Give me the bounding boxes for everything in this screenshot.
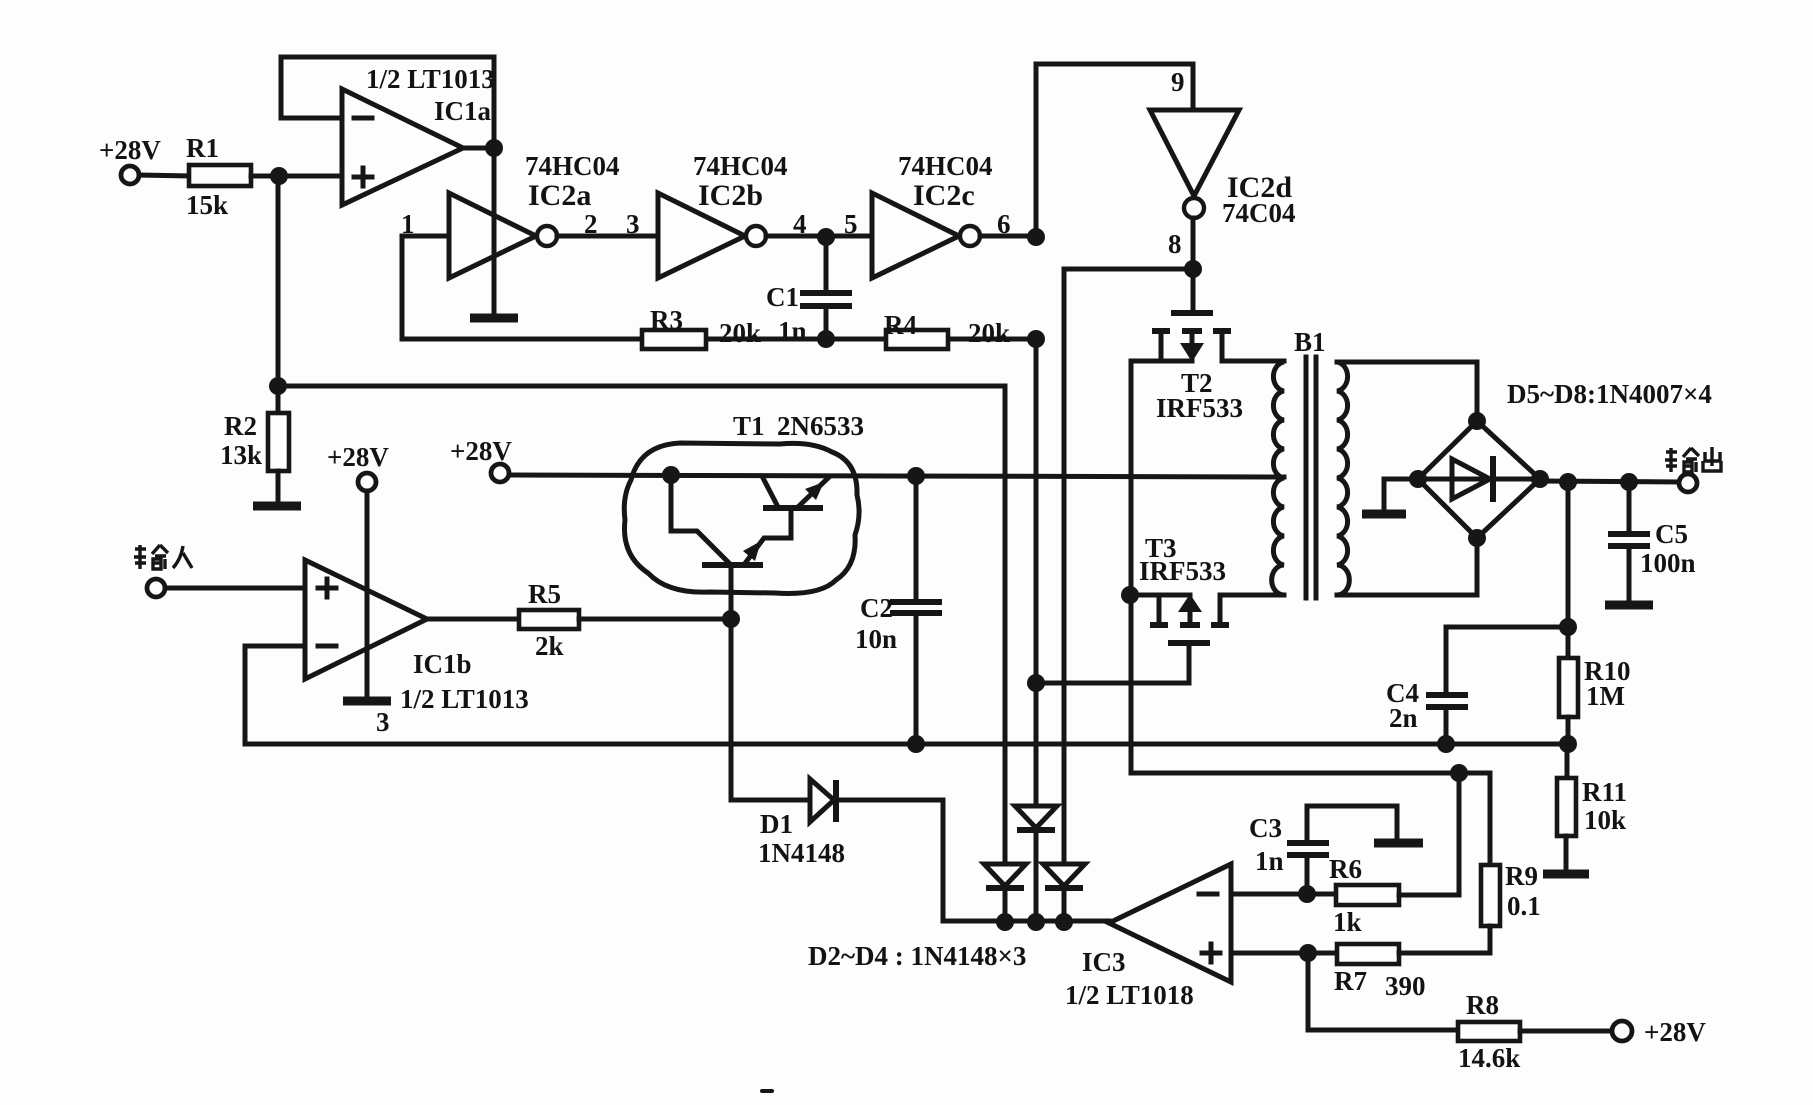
node T3 gate junction	[1027, 674, 1045, 692]
resistor R7	[1334, 944, 1426, 1001]
resistor R6	[1329, 854, 1399, 937]
node C2 top junction	[907, 467, 925, 485]
svg-text:R7: R7	[1334, 966, 1367, 996]
wire R2 to ground	[276, 471, 281, 503]
svg-text:2N6533: 2N6533	[777, 411, 864, 441]
node D4 anode junction	[1055, 913, 1073, 931]
node IC2d output junction	[1184, 260, 1202, 278]
wire T1 internal base network	[671, 475, 728, 562]
transistor T1 lower base bar	[702, 562, 763, 568]
wire secondary bottom to bridge	[1337, 538, 1477, 595]
diode bridge D5-D8	[1418, 379, 1712, 538]
diode D1	[758, 779, 845, 868]
node R2 top junction	[269, 377, 287, 395]
node R1 junction	[270, 167, 288, 185]
node C1 top junction	[817, 228, 835, 246]
capacitor C1	[766, 237, 852, 346]
node IC1a output	[485, 139, 503, 157]
ground bridge left	[1362, 510, 1406, 519]
svg-text:9: 9	[1171, 67, 1185, 97]
comparator U IC3	[1065, 864, 1231, 1010]
transistor T1 upper base bar	[763, 505, 823, 511]
svg-text:R6: R6	[1329, 854, 1362, 884]
resistor R10	[1559, 656, 1631, 717]
svg-text:74HC04: 74HC04	[525, 151, 620, 181]
wire D1 to diode anode line	[838, 800, 1109, 921]
wire rail to R11	[1565, 744, 1570, 778]
node output R10 junction	[1559, 473, 1577, 491]
svg-text:IRF533: IRF533	[1139, 556, 1226, 586]
svg-text:C1: C1	[766, 282, 799, 312]
wire R10 bottom to rail	[1566, 717, 1571, 744]
wire IC1a feedback loop	[281, 57, 494, 118]
wire IC1b output to R5	[427, 617, 519, 622]
terminal input 输入	[134, 545, 192, 597]
svg-text:100n: 100n	[1640, 548, 1696, 578]
ground IC2a	[470, 314, 518, 323]
terminal +28V left	[99, 135, 161, 184]
wire T2 drain line	[1131, 361, 1192, 773]
svg-text:13k: 13k	[220, 440, 262, 470]
resistor R5	[519, 579, 579, 661]
wire IC3 plus input to R7	[1231, 951, 1337, 956]
wire IC2d node to D4 column	[1064, 269, 1193, 864]
svg-text:IC2b: IC2b	[698, 179, 763, 212]
svg-text:3: 3	[626, 209, 640, 239]
inverter IC2b	[658, 151, 788, 278]
node T3 drain junction	[1121, 586, 1139, 604]
svg-text:R4: R4	[884, 310, 917, 340]
capacitor C4	[1386, 627, 1568, 744]
svg-text:1M: 1M	[1586, 681, 1625, 711]
wire R7 right to R9 bottom	[1399, 951, 1490, 956]
svg-text:IC3: IC3	[1082, 947, 1126, 977]
wire IC1a output down to ground	[492, 57, 497, 314]
wire R7 node down to R8	[1308, 953, 1458, 1030]
svg-text:74HC04: 74HC04	[898, 151, 993, 181]
svg-text:74C04: 74C04	[1222, 198, 1296, 228]
node R5 T1 base junction	[722, 610, 740, 628]
svg-text:10k: 10k	[1584, 805, 1626, 835]
svg-text:R5: R5	[528, 579, 561, 609]
svg-text:IC2a: IC2a	[528, 179, 591, 212]
node T1 rail junction	[662, 466, 680, 484]
svg-text:R2: R2	[224, 411, 257, 441]
svg-text:10n: 10n	[855, 624, 897, 654]
inverter IC2c	[872, 151, 993, 278]
svg-text:15k: 15k	[186, 190, 228, 220]
wire bridge right to output terminal	[1540, 481, 1679, 482]
wire input terminal to IC1b	[165, 586, 305, 591]
transistor Q T1 outline	[624, 411, 864, 593]
wire IC2b output to IC2c	[766, 234, 872, 239]
wire IC1b feedback to bottom rail	[245, 646, 305, 744]
ground R2	[253, 502, 301, 511]
node IC2c output junction	[1027, 228, 1045, 246]
ground IC1b	[343, 697, 391, 706]
wire T1 upper collector	[763, 478, 777, 505]
wire bottom feedback rail	[245, 742, 1568, 747]
svg-text:0.1: 0.1	[1507, 891, 1541, 921]
svg-text:IRF533: IRF533	[1156, 393, 1243, 423]
svg-text:D2~D4 : 1N4148×3: D2~D4 : 1N4148×3	[808, 941, 1026, 971]
wire oscillator bus up and to IC2d input	[1036, 64, 1193, 236]
wire junction down to R2	[276, 176, 281, 413]
arrowhead T1 lower emitter	[743, 541, 761, 561]
svg-text:2n: 2n	[1389, 703, 1418, 733]
transformer B1	[1272, 327, 1350, 598]
svg-text:IC2c: IC2c	[913, 179, 975, 212]
svg-text:R11: R11	[1582, 777, 1627, 807]
svg-text:6: 6	[997, 209, 1011, 239]
resistor R4	[884, 310, 1010, 349]
svg-text:20k: 20k	[719, 318, 761, 348]
wire bridge left to ground	[1384, 479, 1418, 510]
terminal +28V bottom right	[1612, 1017, 1706, 1047]
svg-text:+28V: +28V	[99, 135, 161, 165]
transistor Q T3 MOSFET	[1139, 533, 1229, 643]
svg-text:5: 5	[844, 209, 858, 239]
wire T1 base column	[729, 568, 734, 800]
node C3 R6 junction	[1298, 885, 1316, 903]
transistor Q T2 MOSFET	[1152, 313, 1243, 423]
svg-text:1k: 1k	[1333, 907, 1362, 937]
ground R11	[1543, 870, 1589, 879]
svg-text:IC1b: IC1b	[413, 649, 472, 679]
node R6 riser junction	[1450, 764, 1468, 782]
node C4 bottom junction	[1437, 735, 1455, 753]
wire T1 upper emitter	[800, 478, 828, 505]
svg-text:20k: 20k	[968, 318, 1010, 348]
resistor R1	[186, 133, 251, 220]
terminal output 输出	[1665, 447, 1721, 492]
svg-text:T1: T1	[733, 411, 765, 441]
svg-text:IC1a: IC1a	[434, 96, 492, 126]
svg-text:R8: R8	[1466, 990, 1499, 1020]
ground C5	[1605, 601, 1653, 610]
wire D4 cathode stub	[1062, 890, 1067, 922]
wire R8 to terminal	[1520, 1029, 1613, 1034]
wire IC2a input from R3	[402, 236, 449, 339]
node bridge bottom	[1468, 529, 1486, 547]
svg-text:+28V: +28V	[1644, 1017, 1706, 1047]
resistor R8	[1458, 990, 1520, 1073]
svg-text:D1: D1	[760, 809, 793, 839]
resistor R3	[642, 305, 761, 349]
resistor R11	[1557, 777, 1627, 836]
svg-text:4: 4	[793, 209, 807, 239]
svg-text:1/2 LT1018: 1/2 LT1018	[1065, 980, 1194, 1010]
svg-text:1n: 1n	[1255, 846, 1284, 876]
svg-text:C2: C2	[860, 593, 893, 623]
op-amp U IC1a	[342, 64, 495, 205]
wire IC3 minus input to R6	[1231, 892, 1336, 897]
wire T3 drain line	[1131, 593, 1190, 598]
wire R6 right to source rail	[1399, 773, 1459, 895]
svg-text:D5~D8:1N4007×4: D5~D8:1N4007×4	[1507, 379, 1712, 409]
wire R3 R4 feedback line	[402, 337, 1036, 342]
diode D2	[984, 864, 1026, 888]
node C2 bottom junction	[907, 735, 925, 753]
node D3 anode junction	[1027, 913, 1045, 931]
terminal +28V IC1b supply	[327, 442, 389, 491]
node C1 bottom junction	[817, 330, 835, 348]
wire IC1a output tip	[463, 146, 494, 151]
wire T3 gate to oscillator bus	[1036, 646, 1189, 683]
svg-text:390: 390	[1385, 971, 1426, 1001]
svg-text:+28V: +28V	[327, 442, 389, 472]
wire +28V terminal to R1	[139, 175, 189, 176]
wire source rail to R9	[1131, 771, 1490, 776]
svg-text:R3: R3	[650, 305, 683, 335]
svg-text:1/2 LT1013: 1/2 LT1013	[366, 64, 495, 94]
capacitor C5	[1608, 482, 1696, 601]
op-amp U IC1b	[305, 560, 529, 714]
wire T2 source to transformer primary top	[1222, 359, 1284, 364]
node R10 C4 junction	[1559, 618, 1577, 636]
wire D2 cathode stub	[1003, 890, 1008, 922]
wire horizontal bus to D2 column	[278, 384, 1005, 389]
node R10 rail junction	[1559, 735, 1577, 753]
resistor R2	[220, 411, 289, 471]
node bridge top	[1468, 412, 1486, 430]
svg-text:+28V: +28V	[450, 436, 512, 466]
wire IC1b supply vertical	[365, 491, 370, 697]
svg-text:8: 8	[1168, 229, 1182, 259]
resistor R9	[1481, 773, 1541, 953]
node output C5 junction	[1620, 473, 1638, 491]
svg-text:B1: B1	[1294, 327, 1326, 357]
node R7 R8 junction	[1299, 944, 1317, 962]
wire +28V rail to transformer center tap	[509, 475, 1284, 477]
svg-text:2k: 2k	[535, 631, 564, 661]
svg-text:1N4148: 1N4148	[758, 838, 845, 868]
wire R11 to ground	[1564, 836, 1569, 871]
arrowhead T1 upper emitter	[805, 482, 824, 500]
wire IC2c output to bus	[980, 234, 1036, 239]
inverter IC2d	[1150, 110, 1296, 228]
wire R5 to T1 base	[579, 617, 731, 622]
wire bus down to D2	[1003, 386, 1008, 864]
wire IC2d output to T2 gate	[1191, 218, 1196, 311]
svg-text:R1: R1	[186, 133, 219, 163]
terminal +28V T1 rail	[450, 436, 512, 482]
node D2 anode junction	[996, 913, 1014, 931]
diode D4	[1043, 864, 1085, 888]
wire D3 cathode stub	[1034, 832, 1039, 922]
svg-text:C5: C5	[1655, 519, 1688, 549]
svg-text:1/2 LT1013: 1/2 LT1013	[400, 684, 529, 714]
svg-text:2: 2	[584, 209, 598, 239]
wire T1 lower emitter to upper base	[746, 511, 791, 562]
wire R1 to IC1a plus input	[251, 174, 342, 179]
wire T1 collector to D1	[731, 798, 810, 803]
svg-text:3: 3	[376, 707, 390, 737]
capacitor C3	[1249, 806, 1397, 894]
inverter IC2a	[449, 151, 620, 278]
node R4 right junction	[1027, 330, 1045, 348]
svg-text:R9: R9	[1505, 861, 1538, 891]
wire output down to R10	[1566, 482, 1571, 658]
svg-text:14.6k: 14.6k	[1458, 1043, 1520, 1073]
wire T3 source to transformer primary bottom	[1220, 593, 1284, 598]
diode D3	[1015, 806, 1057, 830]
speck	[760, 1089, 774, 1093]
node bridge left	[1409, 470, 1427, 488]
wire IC2a output to IC2b	[557, 234, 658, 239]
wire secondary top to bridge	[1337, 362, 1477, 421]
svg-text:C3: C3	[1249, 813, 1282, 843]
svg-text:74HC04: 74HC04	[693, 151, 788, 181]
node bridge right	[1531, 470, 1549, 488]
ground C3 loop	[1374, 839, 1423, 848]
wire oscillator bus down to D3	[1034, 339, 1039, 806]
capacitor C2	[855, 476, 942, 744]
